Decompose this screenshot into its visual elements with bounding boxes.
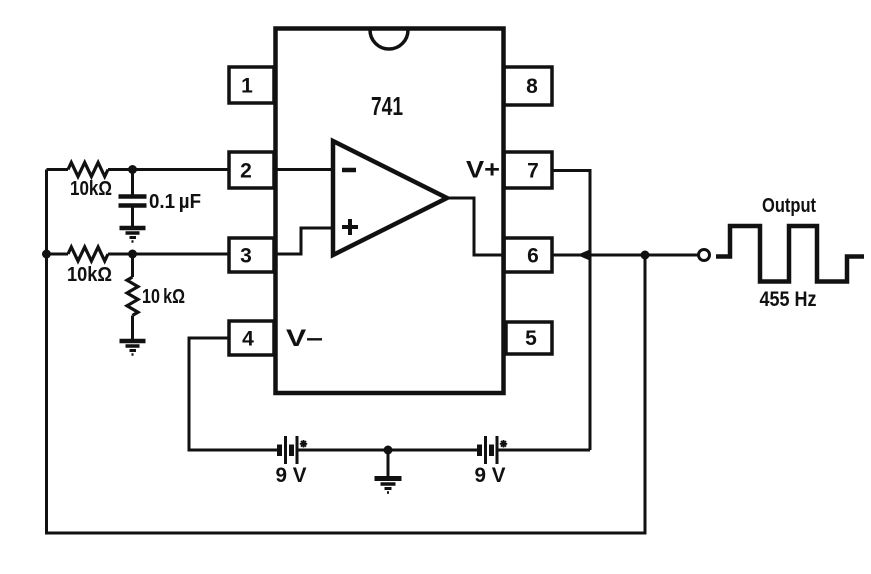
resistor R3 10k (vertical zigzag) xyxy=(127,277,138,315)
junction node: R2/R3 xyxy=(128,250,137,259)
svg-text:9 V: 9 V xyxy=(475,464,506,487)
wire: R3 bottom stub xyxy=(131,316,134,341)
wire: capacitor top stub xyxy=(131,170,134,195)
pin 4 box xyxy=(229,321,274,355)
capacitor C1 0.1uF plates xyxy=(119,197,147,206)
svg-text:8: 8 xyxy=(526,75,538,98)
svg-text:6: 6 xyxy=(527,245,539,268)
pin 8 box xyxy=(504,67,552,105)
op-amp U1 package outline (741 DIP) xyxy=(276,29,504,394)
wire: R1 to junction to pin2 xyxy=(108,168,229,171)
wire: feedback loop (left rail, bottom rail, right vertical) xyxy=(47,170,646,534)
svg-text:V+: V+ xyxy=(466,157,500,184)
pin 6 box xyxy=(504,238,552,272)
ground under R3 xyxy=(120,339,146,344)
op-amp triangle xyxy=(333,141,447,255)
wire: pin7 to positive supply xyxy=(552,171,590,451)
wire: pin2 to inverting input xyxy=(274,168,333,171)
svg-text:10kΩ: 10kΩ xyxy=(70,178,112,200)
svg-text:1: 1 xyxy=(241,75,253,98)
battery B1 9V plates xyxy=(277,445,282,457)
wire: R2 to junction to pin3 xyxy=(108,253,229,256)
wire: op-amp output to pin6 xyxy=(447,198,504,255)
svg-text:10kΩ: 10kΩ xyxy=(67,264,112,286)
pin 5 box xyxy=(506,322,552,354)
svg-text:7: 7 xyxy=(527,160,539,183)
pin 7 box xyxy=(504,152,552,188)
arrowhead on output wire xyxy=(577,249,591,261)
wire: pin3 to non-inverting input (step) xyxy=(274,228,333,254)
junction node: R1/C1 xyxy=(128,165,137,174)
junction node: output to bottom rail xyxy=(641,251,650,260)
wire: second row from rail to resistor R2 xyxy=(47,253,69,256)
battery B2 plus mark xyxy=(500,440,507,448)
pin 2 box xyxy=(229,152,274,188)
output square waveform xyxy=(716,226,864,282)
ground under capacitor xyxy=(120,226,146,231)
svg-text:741: 741 xyxy=(371,91,403,121)
wire: top row from rail to resistor R1 xyxy=(47,168,69,171)
svg-text:V–: V– xyxy=(286,325,323,352)
svg-text:5: 5 xyxy=(525,327,537,350)
wire: battery B1 to center ground junction xyxy=(299,449,478,452)
wire: pin4 to negative supply xyxy=(189,338,277,450)
output terminal (open circle) xyxy=(699,250,710,261)
junction node: left rail row2 xyxy=(42,250,51,259)
minus sign (inverting input) xyxy=(342,168,356,173)
resistor R1 10k (horizontal zigzag) xyxy=(68,163,108,177)
ground (supply center tap) xyxy=(387,450,390,478)
battery B1 plus mark xyxy=(300,440,307,448)
pin 3 box xyxy=(229,238,274,272)
pin 1 box xyxy=(229,67,274,103)
svg-text:Output: Output xyxy=(762,195,816,217)
junction node: supply center tap xyxy=(384,446,393,455)
wire: battery B2 to pin7 drop xyxy=(499,449,591,452)
wire: R3 top stub xyxy=(131,254,134,277)
svg-text:0.1 µF: 0.1 µF xyxy=(149,191,201,213)
svg-text:3: 3 xyxy=(240,245,252,268)
wire: capacitor bottom stub xyxy=(131,208,134,228)
svg-text:455 Hz: 455 Hz xyxy=(760,288,817,311)
svg-text:4: 4 xyxy=(242,328,254,351)
notch at top of package xyxy=(370,30,408,49)
battery B2 9V plates xyxy=(477,445,482,457)
svg-text:10 kΩ: 10 kΩ xyxy=(142,286,185,308)
svg-text:2: 2 xyxy=(240,160,252,183)
wire: pin6 to output terminal xyxy=(552,254,698,257)
resistor R2 10k (horizontal zigzag) xyxy=(68,247,108,261)
plus sign (non-inverting input) xyxy=(342,219,358,235)
svg-text:9 V: 9 V xyxy=(276,464,307,487)
